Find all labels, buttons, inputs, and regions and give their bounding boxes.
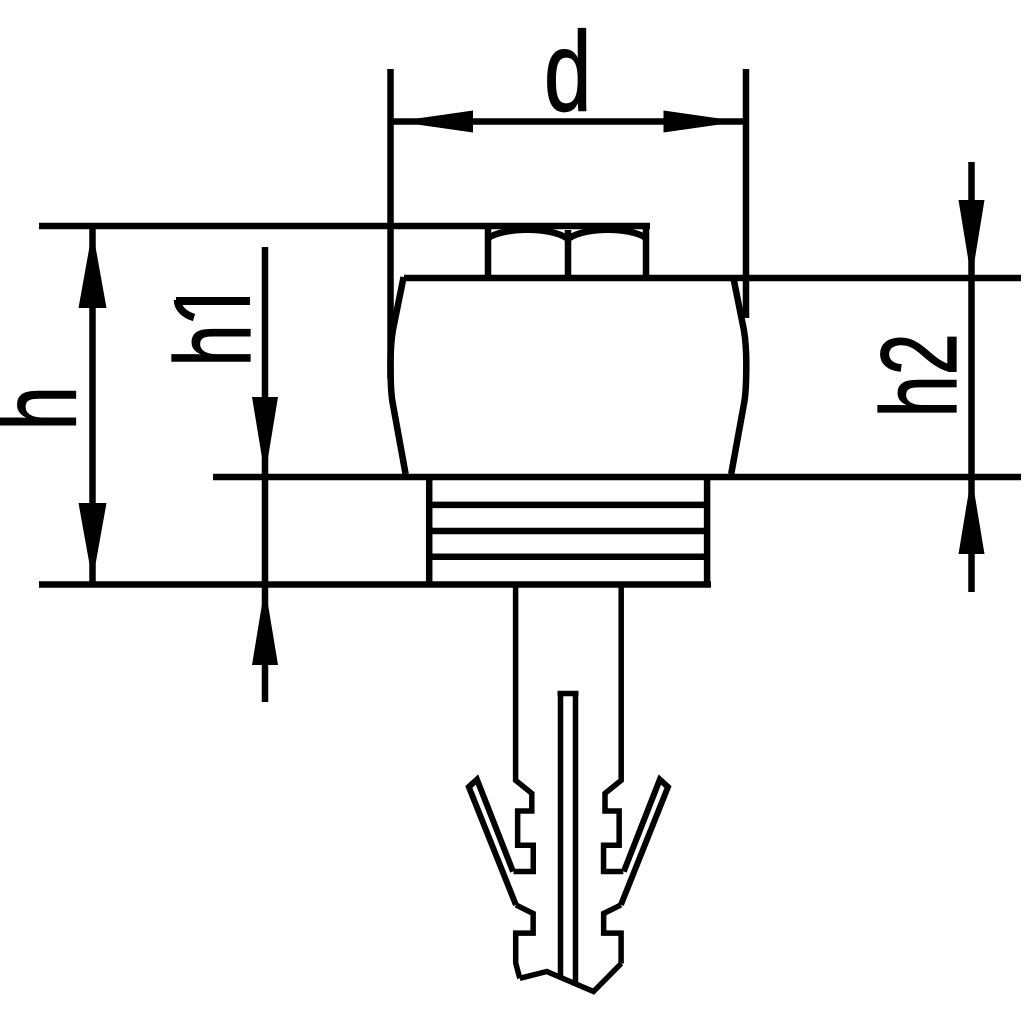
dimension line d [391,118,747,125]
nut cap division line [565,230,572,275]
extension line d right [743,69,750,318]
collar right edge [704,477,711,585]
nut body left silhouette [391,277,406,474]
arrowhead h up [79,230,107,308]
center pin right edge [573,695,579,986]
lower right profile with barb [604,905,621,964]
bottom tip edge [520,964,621,992]
right expansion wing [621,780,668,905]
extension line bottom (for h/h1) [39,581,711,588]
dimension line h1 [262,247,269,702]
nut cap top arc left [488,230,567,238]
svg-text:h2: h2 [859,333,979,417]
collar rib 1 [429,502,707,509]
extension line flange top (for h2) [404,275,1021,282]
arrowhead h1 up [252,586,278,665]
arrowhead d left [396,111,473,133]
lower left profile with barb [516,905,533,978]
collar rib 2 [429,528,707,535]
collar rib 3 [429,554,707,561]
dimension line h [89,226,96,585]
left expansion wing [469,780,516,905]
center pin left edge [558,695,564,979]
extension line top (head top, for h) [39,223,650,230]
nut body right silhouette [731,277,746,474]
nut cap right edge [643,226,650,275]
extension line d left [387,69,394,379]
nut cap left edge [485,226,492,275]
dimension line h2 [968,162,975,592]
shaft right profile with barb notches [604,587,624,872]
arrowhead h down [79,503,107,581]
extension line collar top (for h1/h2) [213,474,1021,481]
svg-text:h: h [153,324,273,366]
svg-text:d: d [544,9,591,135]
arrowhead d right [664,111,741,133]
arrowhead h2 down [959,200,985,280]
center pin top cap [558,691,579,697]
arrowhead h1 down [252,397,278,476]
arrowhead h2 up [959,476,985,555]
svg-text:h: h [0,386,99,430]
nut cap top arc right [570,230,647,238]
collar left edge [426,477,433,585]
shaft left profile with barb notches [514,587,534,872]
label h1 (1 glyph) [176,300,250,318]
